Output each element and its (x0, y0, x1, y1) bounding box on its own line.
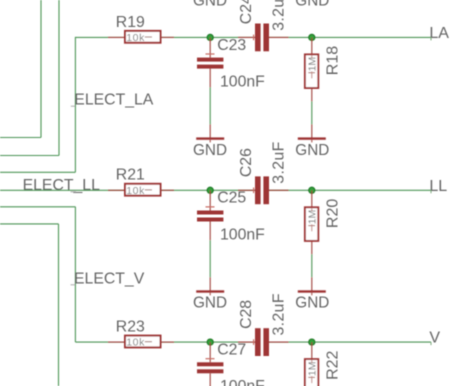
svg-text:3.2uF: 3.2uF (271, 293, 288, 335)
svg-text:1M: 1M (307, 57, 319, 72)
svg-text:100nF: 100nF (220, 226, 265, 243)
svg-text:3.2uF: 3.2uF (271, 0, 288, 31)
svg-text:GND: GND (193, 295, 227, 312)
svg-text:1M: 1M (307, 210, 319, 225)
svg-text:C24: C24 (238, 0, 255, 24)
svg-text:R19: R19 (116, 14, 145, 31)
svg-text:10k: 10k (126, 32, 145, 44)
svg-text:3.2uF: 3.2uF (271, 141, 288, 183)
svg-text:C26: C26 (238, 148, 255, 177)
svg-text:C23: C23 (217, 37, 246, 54)
svg-text:100nF: 100nF (220, 73, 265, 90)
svg-text:ELECT_V: ELECT_V (74, 271, 145, 288)
svg-text:R21: R21 (116, 167, 145, 184)
svg-text:C27: C27 (217, 342, 246, 359)
svg-text:R23: R23 (116, 319, 145, 336)
svg-text:1M: 1M (307, 362, 319, 377)
svg-text:GND: GND (193, 0, 227, 9)
svg-text:LA: LA (429, 25, 449, 42)
svg-text:R20: R20 (325, 199, 342, 228)
svg-text:ELECT_LL: ELECT_LL (23, 177, 100, 194)
svg-text:100nF: 100nF (220, 378, 265, 386)
svg-text:R18: R18 (325, 46, 342, 75)
svg-text:LL: LL (429, 178, 447, 195)
svg-text:C28: C28 (238, 300, 255, 329)
svg-text:10k: 10k (126, 185, 145, 197)
svg-text:GND: GND (295, 0, 329, 9)
svg-text:10k: 10k (126, 337, 145, 349)
svg-text:R22: R22 (325, 350, 342, 379)
svg-text:GND: GND (193, 142, 227, 159)
svg-text:C25: C25 (217, 190, 246, 207)
svg-text:GND: GND (295, 142, 329, 159)
svg-text:ELECT_LA: ELECT_LA (74, 91, 153, 108)
svg-text:GND: GND (295, 295, 329, 312)
